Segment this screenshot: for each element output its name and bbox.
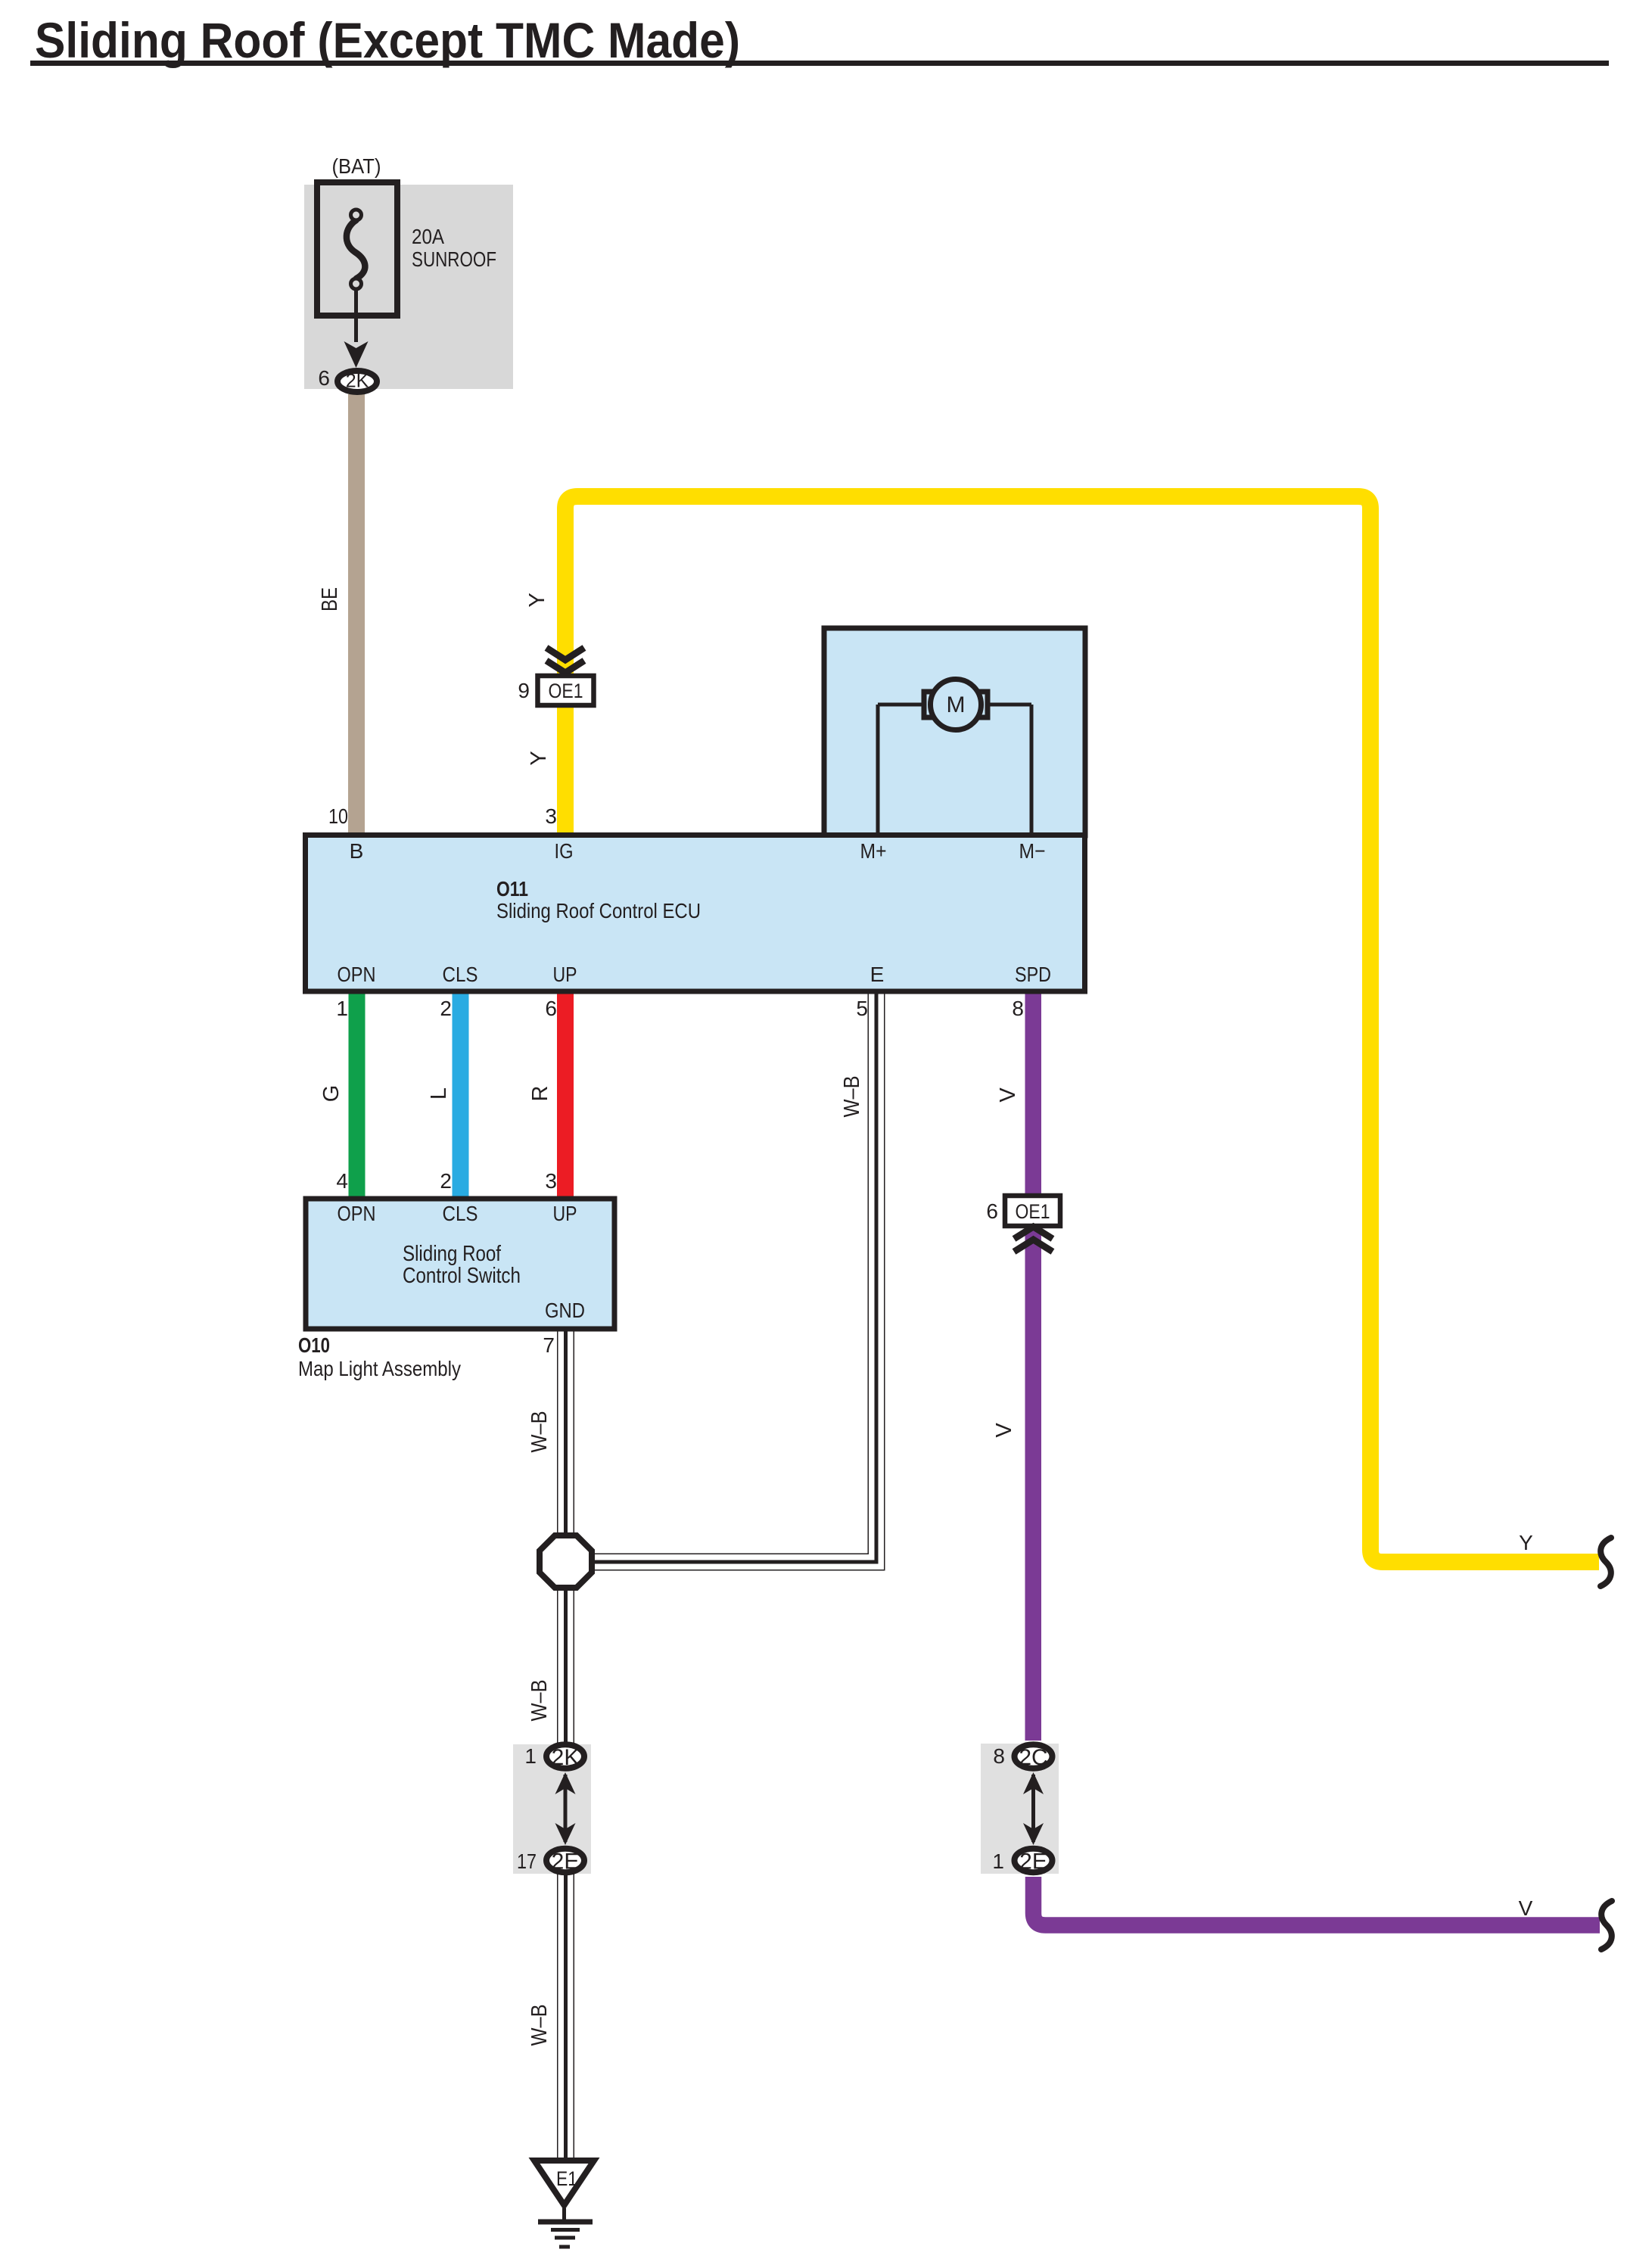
svg-text:2K: 2K <box>346 371 369 392</box>
svg-text:Sliding Roof (Except TMC Made): Sliding Roof (Except TMC Made) <box>35 12 740 68</box>
svg-text:OE1: OE1 <box>1016 1200 1050 1223</box>
svg-text:IG: IG <box>555 839 574 863</box>
svg-text:BE: BE <box>318 587 342 611</box>
svg-text:Y: Y <box>525 593 549 607</box>
svg-text:SUNROOF: SUNROOF <box>412 247 496 271</box>
svg-text:M+: M+ <box>860 839 887 863</box>
svg-text:UP: UP <box>553 1202 577 1225</box>
svg-text:7: 7 <box>543 1333 555 1357</box>
svg-text:2K: 2K <box>552 1745 580 1770</box>
svg-text:W–B: W–B <box>527 2005 552 2046</box>
svg-text:M−: M− <box>1019 839 1046 863</box>
svg-text:E1: E1 <box>556 2167 577 2190</box>
svg-text:OPN: OPN <box>338 1202 376 1225</box>
svg-text:O10: O10 <box>298 1333 330 1357</box>
svg-text:SPD: SPD <box>1015 963 1051 986</box>
svg-text:3: 3 <box>545 804 557 828</box>
svg-text:CLS: CLS <box>443 963 478 986</box>
svg-text:(BAT): (BAT) <box>332 154 381 178</box>
svg-text:10: 10 <box>328 804 348 828</box>
svg-text:17: 17 <box>517 1850 537 1873</box>
svg-text:2E: 2E <box>552 1850 580 1874</box>
svg-text:W–B: W–B <box>840 1076 864 1118</box>
svg-text:Control Switch: Control Switch <box>403 1264 521 1288</box>
svg-text:V: V <box>1519 1896 1533 1920</box>
svg-text:Y: Y <box>1519 1531 1533 1554</box>
svg-text:OPN: OPN <box>338 963 376 986</box>
svg-text:O11: O11 <box>496 877 528 901</box>
svg-text:UP: UP <box>553 963 577 986</box>
svg-text:Sliding Roof Control ECU: Sliding Roof Control ECU <box>496 899 701 922</box>
svg-text:2E: 2E <box>1019 1850 1047 1874</box>
svg-text:OE1: OE1 <box>549 680 583 702</box>
svg-text:E: E <box>870 963 885 986</box>
svg-text:L: L <box>427 1087 451 1100</box>
svg-text:1: 1 <box>336 997 348 1020</box>
svg-text:M: M <box>947 692 966 717</box>
svg-text:9: 9 <box>518 679 530 702</box>
svg-text:Sliding Roof: Sliding Roof <box>403 1242 502 1266</box>
svg-text:W–B: W–B <box>527 1680 552 1722</box>
svg-text:6: 6 <box>986 1199 998 1223</box>
svg-text:4: 4 <box>336 1169 348 1193</box>
svg-text:3: 3 <box>545 1169 557 1193</box>
svg-text:1: 1 <box>992 1850 1004 1873</box>
svg-text:G: G <box>319 1085 344 1103</box>
svg-text:V: V <box>996 1087 1020 1103</box>
svg-text:2: 2 <box>440 997 452 1020</box>
svg-text:20A: 20A <box>412 225 444 248</box>
svg-text:8: 8 <box>993 1744 1005 1768</box>
svg-text:6: 6 <box>545 997 557 1020</box>
svg-text:GND: GND <box>545 1299 585 1322</box>
svg-text:CLS: CLS <box>443 1202 478 1225</box>
svg-text:Y: Y <box>527 751 551 765</box>
svg-text:1: 1 <box>524 1744 537 1768</box>
svg-text:2: 2 <box>440 1169 452 1193</box>
svg-text:2C: 2C <box>1019 1745 1047 1770</box>
svg-text:W–B: W–B <box>527 1411 552 1453</box>
svg-text:8: 8 <box>1012 997 1024 1020</box>
svg-text:B: B <box>350 839 364 863</box>
svg-text:Map Light Assembly: Map Light Assembly <box>298 1357 461 1380</box>
svg-text:V: V <box>992 1423 1016 1438</box>
svg-text:5: 5 <box>856 997 868 1020</box>
svg-text:6: 6 <box>318 366 330 390</box>
svg-text:R: R <box>528 1086 552 1102</box>
